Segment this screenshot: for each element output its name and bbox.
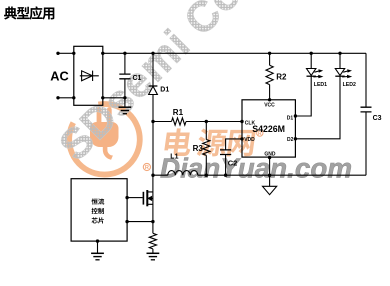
- wire: C1 to ground: [124, 98, 126, 107]
- LED LED2: [339, 53, 341, 68]
- wire: AC bottom terminal to bridge: [58, 97, 74, 99]
- resistor R3: [205, 122, 207, 176]
- svg-text:S4226M: S4226M: [252, 124, 285, 134]
- svg-text:R3: R3: [193, 144, 204, 153]
- capacitor C1: [124, 53, 126, 98]
- svg-text:C2: C2: [228, 159, 238, 168]
- svg-text:R: R: [145, 165, 149, 171]
- wire: box to ground: [97, 241, 99, 253]
- svg-text:C3: C3: [373, 115, 382, 122]
- svg-text:C1: C1: [133, 75, 142, 82]
- watermark: registered mark (text): [257, 130, 263, 136]
- svg-text:LED1: LED1: [314, 82, 327, 88]
- wire: D2 pin to LED2: [295, 76, 340, 139]
- LED light arrows: [313, 69, 352, 78]
- resistor R2: [269, 53, 271, 100]
- wire: AC top terminal to bridge: [58, 52, 74, 54]
- svg-text:D1: D1: [160, 87, 169, 94]
- wire: D1 pin to LED1: [295, 76, 311, 116]
- resistor Rs (sense): [152, 222, 154, 253]
- svg-text:GND: GND: [264, 152, 276, 158]
- svg-text:R1: R1: [173, 108, 184, 117]
- watermark: orange ring logo: [69, 104, 140, 175]
- watermark: diagonal hatched text: [50, 0, 270, 170]
- wire: R1 feed (CLK line): [153, 121, 242, 123]
- svg-text:L1: L1: [170, 154, 178, 161]
- svg-text:VCC: VCC: [264, 103, 275, 109]
- wire: bridge negative to ground: [103, 97, 125, 99]
- transistor Q1 (NMOS): [142, 192, 144, 205]
- svg-text:D1: D1: [287, 116, 294, 122]
- wire: gate drive: [127, 197, 143, 199]
- IC U1 S4226M: [242, 100, 295, 157]
- wire: bottom rail: [153, 174, 366, 176]
- capacitor C2: [220, 150, 231, 155]
- ground: below C1: [119, 106, 132, 108]
- wire: top rail: [103, 52, 366, 54]
- title 典型应用: [4, 7, 17, 20]
- ground: below sense resistor: [147, 252, 160, 254]
- capacitor C3: [365, 53, 367, 175]
- control box text 恒流控制芯片: [92, 198, 98, 204]
- control chip box: [71, 179, 127, 241]
- LED LED1: [310, 53, 312, 68]
- ground: open triangle below IC: [263, 186, 277, 194]
- watermark: registered mark (ring): [143, 163, 150, 170]
- wire: VDD line: [226, 139, 242, 175]
- svg-text:LED2: LED2: [343, 82, 356, 88]
- watermark: orange text 电源网: [164, 128, 194, 156]
- wire: IC GND to rail and ground: [269, 157, 271, 186]
- wire: box to source sense: [127, 221, 153, 223]
- watermark: plug icon: [90, 107, 119, 159]
- svg-text:VDD: VDD: [244, 137, 255, 143]
- bridge rectifier BR1: [74, 46, 103, 105]
- ground: below control box: [91, 252, 104, 254]
- inductor L1: [168, 171, 198, 176]
- svg-text:AC: AC: [50, 68, 68, 83]
- resistor R1: [172, 118, 187, 125]
- svg-text:D2: D2: [287, 137, 294, 143]
- diode D1: [152, 53, 154, 175]
- svg-text:R2: R2: [276, 72, 287, 81]
